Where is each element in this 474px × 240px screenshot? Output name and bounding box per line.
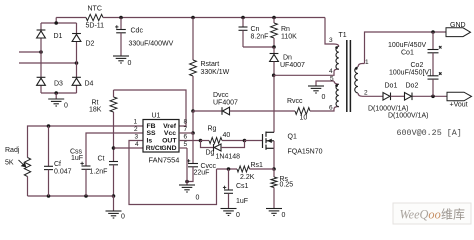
svg-text:330K/1W: 330K/1W bbox=[201, 69, 230, 76]
diode D3 bbox=[37, 77, 46, 85]
wire HV rail corner to primary pin3 bbox=[325, 18, 334, 45]
junction Cdc tap bbox=[119, 16, 123, 20]
svg-text:110K: 110K bbox=[281, 34, 297, 41]
junction Rg/Dg right bbox=[243, 139, 247, 143]
svg-text:FAN7554: FAN7554 bbox=[149, 155, 180, 164]
svg-text:6: 6 bbox=[329, 105, 333, 112]
capacitor Css bbox=[82, 166, 91, 169]
wire Dg loop left bbox=[201, 141, 214, 148]
svg-text:0: 0 bbox=[64, 103, 68, 110]
wire Vref rail (Rt top) bbox=[114, 90, 187, 126]
wire Dg loop right bbox=[221, 141, 245, 148]
wire Rn top lead bbox=[273, 18, 275, 24]
wire Rg left lead bbox=[201, 140, 210, 142]
wire Rstart to Vcc node bbox=[192, 76, 194, 111]
diode Do2 bbox=[405, 93, 413, 101]
wire pin5 hook to coil bbox=[334, 81, 339, 84]
svg-text:22uF: 22uF bbox=[194, 170, 210, 177]
capacitor Co2 bbox=[428, 72, 442, 79]
junction Cs1 tap bbox=[227, 167, 231, 171]
wire Rt top lead bbox=[113, 90, 115, 97]
junction Vcc-pin7 bbox=[191, 131, 195, 135]
wire sense line left segment bbox=[217, 168, 238, 170]
ground T1 pin5 bbox=[308, 86, 324, 93]
wire drain vertical bbox=[273, 75, 275, 132]
svg-text:UF4007: UF4007 bbox=[213, 100, 238, 107]
svg-text:UF4007: UF4007 bbox=[280, 62, 305, 69]
svg-text:FB: FB bbox=[147, 123, 156, 130]
transformer T1 primary upper winding bbox=[336, 47, 339, 70]
wire primary pin4 bbox=[274, 72, 334, 76]
svg-text:2.2K: 2.2K bbox=[240, 174, 255, 181]
svg-text:OUT: OUT bbox=[162, 138, 177, 145]
svg-text:Cdc: Cdc bbox=[131, 28, 144, 35]
svg-text:Q1: Q1 bbox=[288, 134, 297, 141]
capacitor Ct bbox=[109, 162, 118, 165]
capacitor Co1 bbox=[428, 46, 442, 53]
svg-text:D(1000V/1A): D(1000V/1A) bbox=[388, 112, 428, 119]
diode D2 bbox=[72, 34, 81, 42]
capacitor Cn bbox=[239, 27, 248, 30]
capacitor Cdc bbox=[116, 30, 126, 33]
svg-text:Do1: Do1 bbox=[385, 83, 398, 90]
svg-text:10: 10 bbox=[300, 115, 308, 122]
wire U1 pin7 Vcc stub bbox=[179, 132, 193, 134]
ground bridge bbox=[48, 99, 64, 106]
wire Cs1 bottom lead bbox=[228, 193, 230, 208]
junction riser-bridge top bbox=[54, 21, 58, 25]
svg-text:0: 0 bbox=[322, 94, 326, 101]
ground analog bbox=[106, 211, 122, 218]
junction source-Rs1-Rs bbox=[272, 167, 276, 171]
wire bridge ground stem bbox=[55, 93, 57, 99]
svg-text:0: 0 bbox=[196, 195, 200, 202]
node snubber Cn tap bbox=[241, 16, 245, 20]
wire Cs1 top lead bbox=[228, 169, 230, 190]
svg-text:5D-11: 5D-11 bbox=[86, 23, 105, 30]
junction Rt/Ct-pin4 bbox=[112, 146, 116, 150]
wire bridge left leg bbox=[40, 23, 42, 93]
wire Rstart top lead bbox=[192, 18, 194, 61]
wire Cf top lead bbox=[48, 126, 50, 166]
svg-text:4: 4 bbox=[329, 68, 333, 75]
svg-text:1: 1 bbox=[134, 119, 138, 126]
svg-text:100uF/450V: 100uF/450V bbox=[388, 42, 426, 49]
junction Dn-primary pin4 bbox=[272, 74, 276, 78]
capacitor Cvcc bbox=[188, 164, 198, 167]
svg-text:Dg: Dg bbox=[206, 150, 215, 157]
wire Co1 top lead bbox=[432, 32, 434, 50]
wire Cf bottom lead bbox=[48, 170, 50, 196]
svg-text:维库: 维库 bbox=[441, 206, 465, 221]
wire Dn cathode lead bbox=[273, 47, 275, 54]
transformer T1 phase dot secondary bbox=[355, 67, 358, 70]
wire Q1 drain-source vertical bbox=[273, 141, 275, 149]
junction AC2-bridge right leg bbox=[75, 61, 79, 65]
svg-text:0.047: 0.047 bbox=[54, 169, 72, 176]
svg-text:600V@0.25 [A]: 600V@0.25 [A] bbox=[397, 128, 462, 138]
svg-text:0: 0 bbox=[128, 60, 132, 67]
svg-text:FQA15N70: FQA15N70 bbox=[288, 149, 323, 156]
potentiometer Radj wiper arrow bbox=[19, 160, 26, 167]
ground Cs1 bbox=[221, 209, 237, 216]
wire Cvcc bottom lead bbox=[187, 167, 193, 182]
ground Cdc bbox=[113, 56, 129, 63]
resistor Rt bbox=[110, 97, 117, 112]
wire Dn anode to drain node bbox=[273, 62, 275, 76]
wire Cn bottom lead bbox=[242, 30, 244, 47]
svg-text:100uF/450[V]: 100uF/450[V] bbox=[389, 70, 431, 77]
junction snubber-Dn bbox=[272, 45, 276, 49]
svg-text:Co2: Co2 bbox=[411, 62, 424, 69]
wire analog ground stem bbox=[113, 196, 115, 211]
wire riser bridge to HV rail bbox=[55, 18, 57, 24]
wire U1 pin5 GND stub bbox=[179, 147, 187, 149]
junction Cf top bbox=[47, 124, 51, 128]
junction Cvcc-GND pin bbox=[185, 180, 189, 184]
ground Rs bbox=[266, 209, 282, 216]
transistor Q1 MOSFET bbox=[263, 132, 275, 150]
svg-text:1: 1 bbox=[365, 59, 369, 66]
svg-text:5: 5 bbox=[330, 76, 334, 83]
junction Rstart tap bbox=[191, 16, 195, 20]
wire GND node stem bbox=[186, 182, 188, 186]
svg-text:5: 5 bbox=[184, 141, 188, 148]
svg-text:Rt: Rt bbox=[92, 100, 99, 107]
junction AC1-bridge left leg bbox=[39, 50, 43, 54]
connector +Vout bbox=[447, 92, 472, 101]
svg-text:0: 0 bbox=[236, 212, 240, 219]
resistor Rvcc bbox=[295, 108, 310, 115]
resistor Rstart bbox=[190, 60, 197, 76]
wire Css bottom lead bbox=[85, 169, 87, 196]
svg-text:1uF: 1uF bbox=[236, 198, 248, 205]
svg-text:Dvcc: Dvcc bbox=[213, 92, 229, 99]
wire Rt bottom to Ct bbox=[113, 112, 115, 162]
wire U1 pin4 (Rt/Ct) bbox=[114, 147, 144, 149]
wire HV rail bbox=[56, 17, 86, 19]
svg-text:Rt/Ct: Rt/Ct bbox=[146, 145, 163, 152]
IC U1 FAN7554 body bbox=[143, 120, 179, 153]
watermark WeeQoo bbox=[393, 203, 471, 224]
wire Rs bottom lead bbox=[273, 188, 275, 209]
wire secondary pin1 hook bbox=[358, 64, 365, 68]
transformer T1 phase dot primary upper bbox=[335, 46, 338, 49]
svg-text:0: 0 bbox=[282, 212, 286, 219]
connector GND bbox=[446, 28, 471, 37]
svg-text:Rvcc: Rvcc bbox=[287, 98, 303, 105]
wire Co2 bottom lead bbox=[432, 79, 434, 96]
svg-text:7: 7 bbox=[184, 126, 188, 133]
svg-text:Cf: Cf bbox=[54, 161, 61, 168]
svg-text:2: 2 bbox=[364, 90, 368, 97]
transformer T1 phase dot primary lower bbox=[335, 84, 338, 87]
wire pin4 hook to coil bbox=[334, 69, 339, 72]
svg-text:0: 0 bbox=[121, 214, 125, 221]
svg-text:Is: Is bbox=[147, 138, 153, 145]
node snubber Rn tap bbox=[272, 16, 276, 20]
junction Vcc rail-Dvcc bbox=[191, 109, 195, 113]
junction analog ground node bbox=[112, 194, 116, 198]
svg-text:Rn: Rn bbox=[281, 26, 290, 33]
svg-text:Cs1: Cs1 bbox=[236, 183, 249, 190]
svg-text:GND: GND bbox=[161, 145, 176, 152]
svg-text:1uF: 1uF bbox=[71, 155, 83, 162]
diode D4 bbox=[72, 77, 81, 85]
svg-text:SS: SS bbox=[147, 130, 157, 137]
wire Do2 to +Vout bbox=[413, 95, 448, 97]
wire Do1 to Do2 bbox=[391, 95, 405, 97]
wire Cn top lead bbox=[242, 18, 244, 28]
wire aux to primary pin6 bbox=[310, 109, 334, 111]
wire secondary pin2 hook bbox=[358, 93, 363, 96]
svg-text:3: 3 bbox=[135, 134, 139, 141]
wire Cdc top lead bbox=[120, 18, 122, 30]
wire Ct bottom lead bbox=[113, 165, 115, 196]
svg-text:T1: T1 bbox=[339, 32, 347, 39]
svg-text:Rstart: Rstart bbox=[201, 61, 220, 68]
wire Vcc rail down to Cvcc bbox=[192, 133, 194, 164]
svg-text:8.2nF: 8.2nF bbox=[251, 34, 269, 41]
resistor Rs1 bbox=[237, 166, 250, 172]
wire snubber bottom bbox=[243, 46, 274, 48]
wire Rs1 right lead bbox=[250, 168, 275, 170]
svg-text:0.25: 0.25 bbox=[280, 182, 294, 189]
svg-text:2: 2 bbox=[134, 126, 138, 133]
svg-text:Rg: Rg bbox=[208, 126, 217, 133]
diode D1 bbox=[37, 30, 46, 38]
diode Dvcc bbox=[222, 107, 230, 115]
wire Radj bottom lead bbox=[27, 177, 29, 197]
wire Vcc rail down to pin7 level bbox=[192, 111, 194, 133]
transformer T1 secondary winding bbox=[355, 67, 358, 93]
wire pin3 hook to coil bbox=[334, 44, 339, 47]
wire aux Dvcc segment bbox=[193, 110, 222, 112]
svg-text:D3: D3 bbox=[54, 81, 63, 88]
wire Rg right lead bbox=[222, 140, 245, 142]
wire HV rail segment 2 bbox=[103, 17, 325, 19]
diode Dn bbox=[270, 54, 279, 62]
svg-text:Radj: Radj bbox=[5, 147, 20, 154]
svg-text:U1: U1 bbox=[152, 113, 161, 120]
wire aux middle segment bbox=[230, 110, 296, 112]
svg-text:6: 6 bbox=[184, 134, 188, 141]
wire U1 pin5 GND down bbox=[186, 148, 188, 182]
svg-text:18K: 18K bbox=[89, 107, 102, 114]
junction Co2-output bbox=[431, 95, 435, 99]
wire pin6 hook to coil bbox=[334, 107, 339, 110]
wire Cdc bottom lead bbox=[120, 33, 122, 56]
svg-text:Vref: Vref bbox=[163, 123, 177, 130]
wire Q1 source down bbox=[273, 148, 275, 169]
wire U1 pin6 OUT to gate network bbox=[179, 140, 201, 142]
wire bridge bottom rail bbox=[41, 92, 77, 94]
wire secondary pin2 to Do1 bbox=[363, 95, 384, 97]
transformer T1 core bbox=[347, 40, 351, 112]
svg-text:330uF/400WV: 330uF/400WV bbox=[129, 40, 174, 47]
resistor Rg bbox=[209, 138, 222, 144]
junction Cf bottom bbox=[47, 194, 51, 198]
svg-text:8: 8 bbox=[184, 119, 188, 126]
junction Css bottom bbox=[84, 194, 88, 198]
wire U1 pin1 FB net bbox=[28, 126, 144, 158]
wire Rs top lead bbox=[273, 169, 275, 177]
svg-text:1N4148: 1N4148 bbox=[216, 154, 241, 161]
wire bridge top rail bbox=[41, 22, 77, 24]
svg-text:WeeQoo: WeeQoo bbox=[400, 208, 441, 222]
svg-text:NTC: NTC bbox=[88, 6, 102, 13]
svg-text:D1: D1 bbox=[54, 33, 63, 40]
svg-text:Rs1: Rs1 bbox=[251, 162, 264, 169]
resistor Rs bbox=[271, 177, 277, 188]
svg-text:+Vout: +Vout bbox=[450, 102, 468, 109]
capacitor Cs1 bbox=[224, 190, 233, 193]
ground U1/Cvcc bbox=[179, 185, 195, 192]
diode Do1 bbox=[383, 93, 391, 101]
svg-text:1.2nF: 1.2nF bbox=[90, 169, 108, 176]
capacitor Cf bbox=[44, 166, 53, 169]
svg-text:3: 3 bbox=[329, 37, 333, 44]
junction OUT-Rg/Dg left bbox=[199, 139, 203, 143]
AC input line bottom bbox=[19, 62, 77, 64]
transformer T1 primary lower winding bbox=[336, 84, 339, 106]
junction Co1 tap on GND rail bbox=[431, 30, 435, 34]
resistor Rn bbox=[271, 23, 278, 38]
svg-text:Vcc: Vcc bbox=[164, 130, 176, 137]
wire secondary pin1 up to GND rail bbox=[365, 32, 447, 64]
svg-text:Do2: Do2 bbox=[406, 83, 419, 90]
wire bridge right leg bbox=[76, 23, 78, 93]
wire Rn bottom lead bbox=[273, 38, 275, 47]
junction bridge bottom-ground bbox=[54, 91, 58, 95]
wire U1 pin2 SS net bbox=[86, 133, 143, 166]
svg-text:D4: D4 bbox=[85, 81, 94, 88]
diode Dg bbox=[214, 144, 222, 151]
wire Co1-Co2 link bbox=[432, 53, 434, 76]
wire U1 pin3 Is net bbox=[129, 141, 217, 205]
svg-text:D2: D2 bbox=[86, 41, 95, 48]
wire primary pin5 to ground bbox=[316, 81, 334, 86]
svg-text:GND: GND bbox=[450, 22, 466, 29]
AC input line top bbox=[19, 51, 41, 53]
wire analog bottom rail bbox=[28, 195, 114, 197]
potentiometer Radj bbox=[24, 158, 30, 177]
svg-text:4: 4 bbox=[135, 141, 139, 148]
thermistor NTC bbox=[86, 14, 103, 20]
svg-text:Ct: Ct bbox=[98, 156, 105, 163]
svg-text:5K: 5K bbox=[5, 160, 14, 167]
svg-text:40: 40 bbox=[223, 132, 231, 139]
wire gate lead bbox=[245, 140, 263, 142]
svg-text:Dn: Dn bbox=[283, 55, 292, 62]
svg-text:Co1: Co1 bbox=[401, 50, 414, 57]
svg-text:Cn: Cn bbox=[251, 26, 260, 33]
